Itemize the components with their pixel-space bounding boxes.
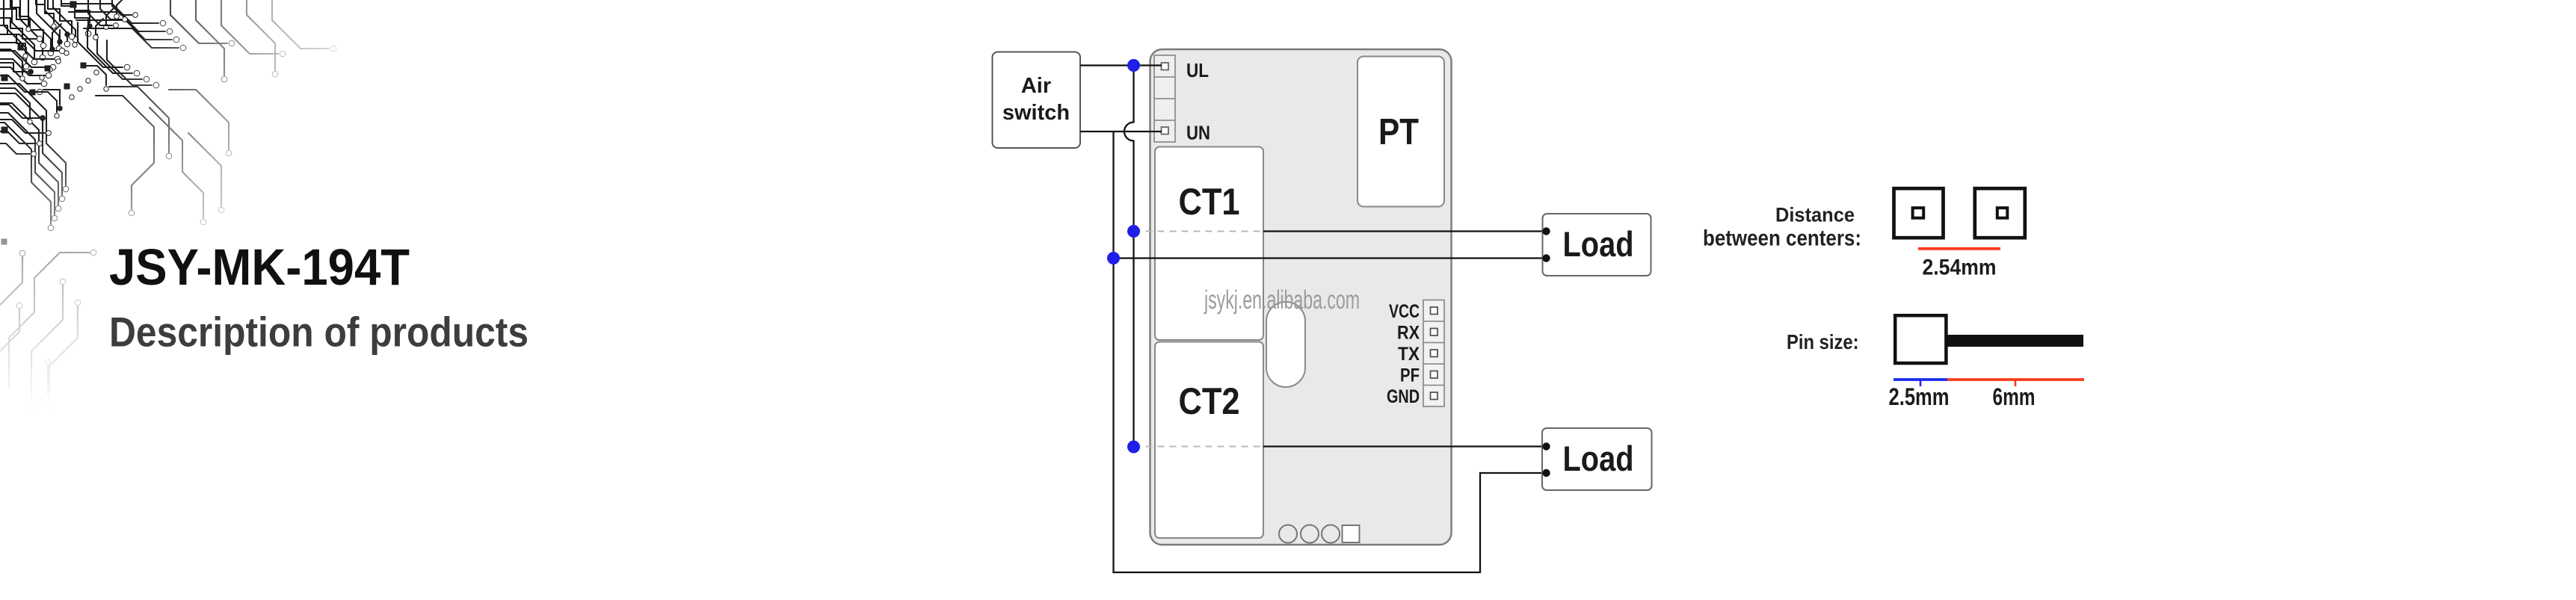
svg-text:PT: PT [1378,112,1419,152]
svg-text:TX: TX [1398,344,1420,365]
svg-text:JSY-MK-194T: JSY-MK-194T [109,238,410,296]
svg-text:Pin size:: Pin size: [1787,330,1859,353]
svg-text:UL: UL [1186,59,1209,81]
svg-text:Load: Load [1563,224,1634,264]
svg-text:CT2: CT2 [1179,380,1240,422]
svg-text:PF: PF [1400,365,1420,386]
svg-text:VCC: VCC [1389,301,1420,322]
svg-text:between centers:: between centers: [1703,226,1861,251]
svg-text:GND: GND [1387,386,1420,407]
svg-text:Distance: Distance [1775,204,1855,226]
svg-text:2.54mm: 2.54mm [1923,256,1997,280]
svg-text:UN: UN [1186,122,1210,144]
svg-text:switch: switch [1002,101,1070,125]
svg-text:2.5mm: 2.5mm [1889,383,1950,410]
svg-text:6mm: 6mm [1993,383,2036,410]
svg-text:jsykj.en.alibaba.com: jsykj.en.alibaba.com [1204,285,1360,315]
svg-text:Description of products: Description of products [109,309,529,356]
svg-text:Load: Load [1563,439,1634,478]
svg-text:CT1: CT1 [1179,181,1240,223]
svg-text:Air: Air [1021,74,1051,98]
svg-text:RX: RX [1397,323,1420,344]
